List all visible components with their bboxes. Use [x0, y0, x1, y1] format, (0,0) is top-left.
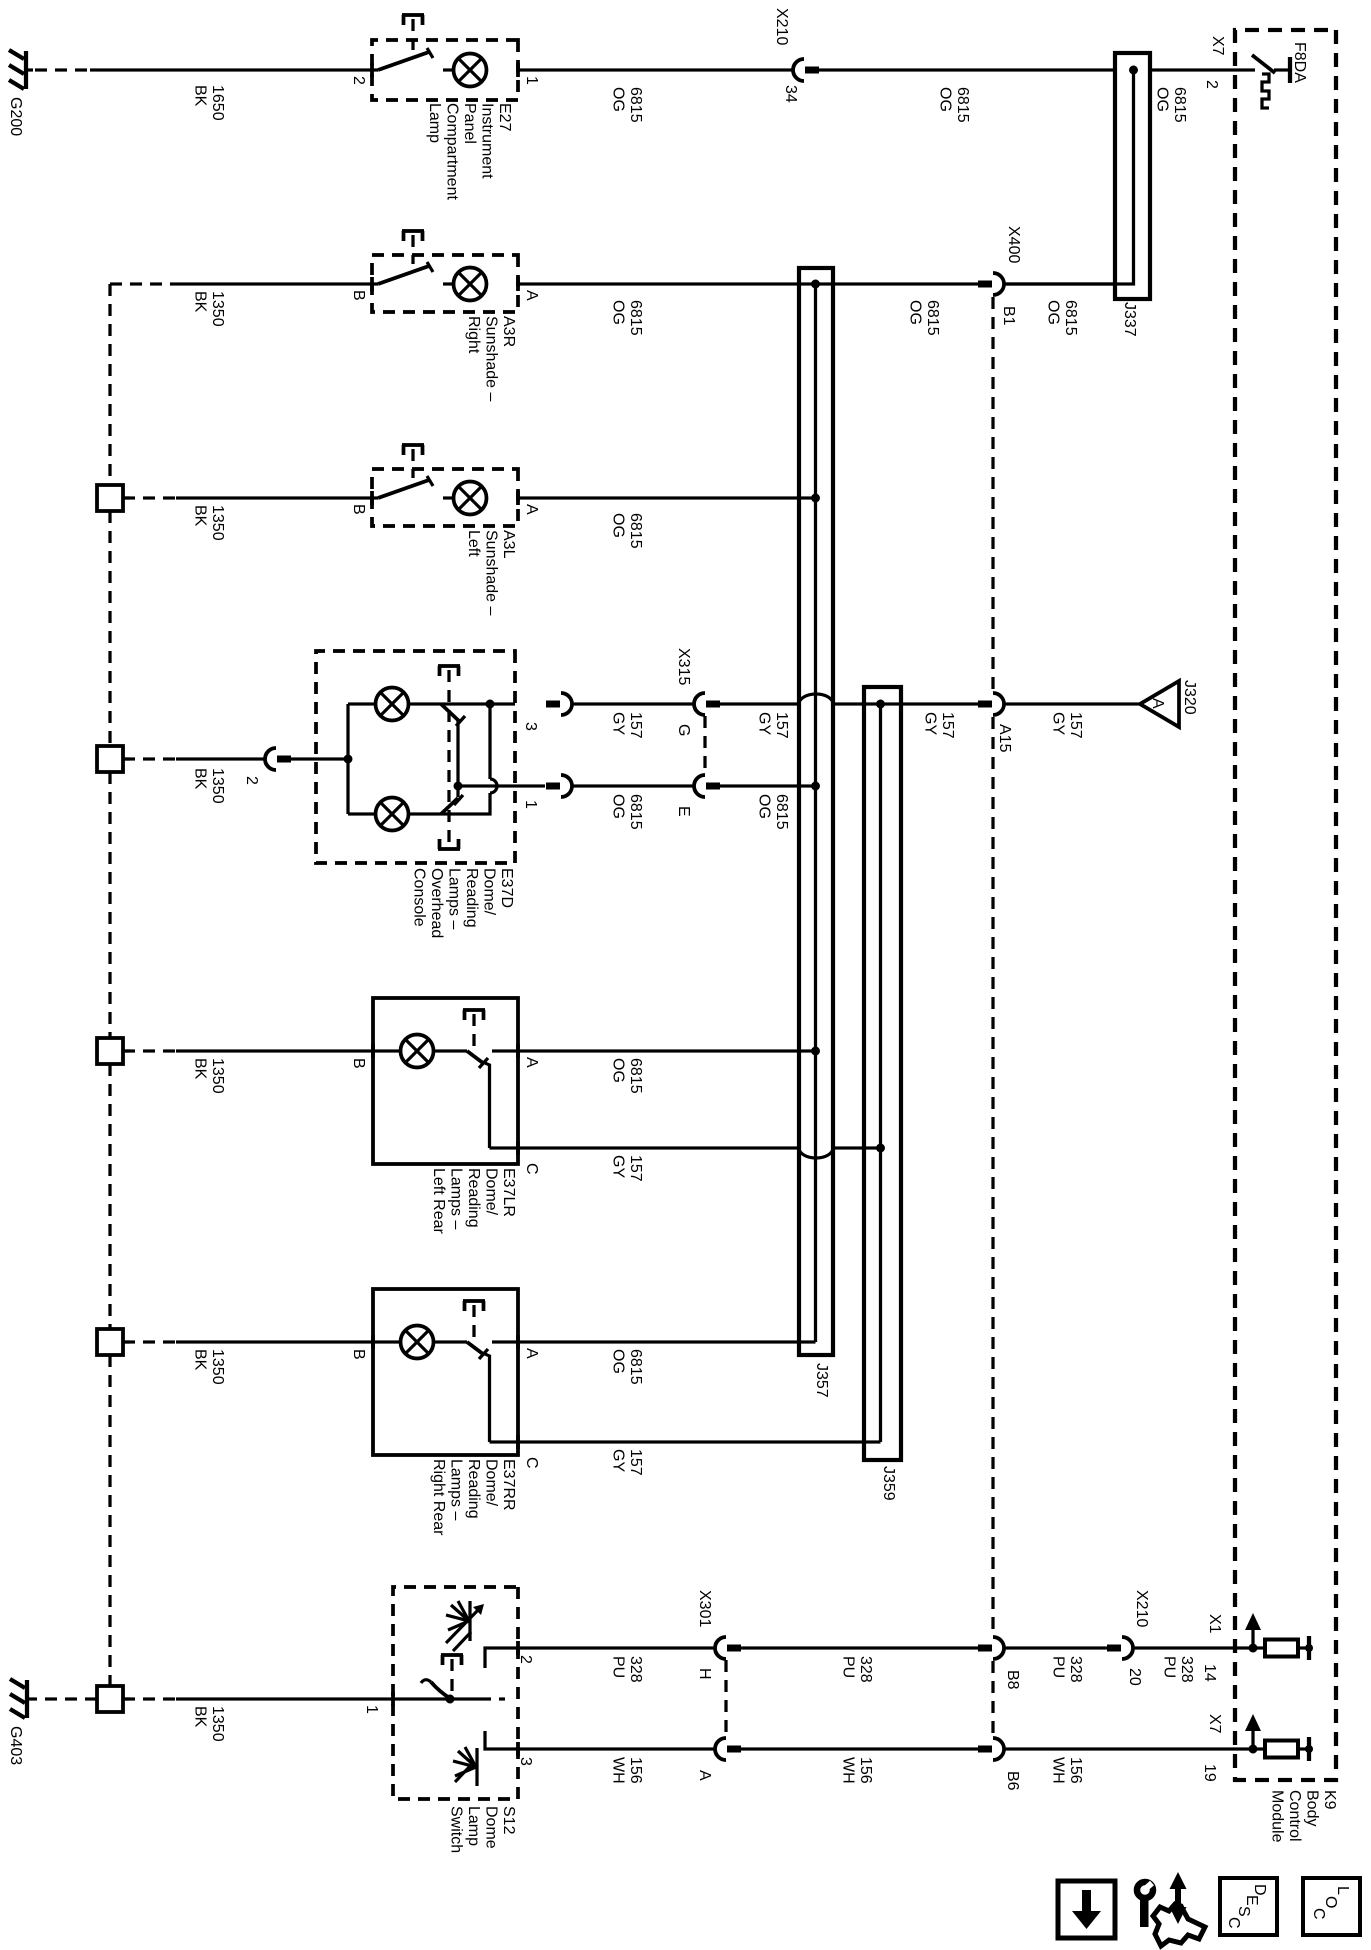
svg-text:PU: PU: [610, 1656, 627, 1678]
splice pack J359 box: [864, 687, 901, 1460]
svg-text:A: A: [523, 1057, 540, 1068]
connector X400 pin A15: [978, 693, 1004, 715]
label X315: [675, 648, 692, 685]
label X7 19: [1201, 1714, 1223, 1782]
svg-text:BK: BK: [192, 85, 209, 107]
label J359: [880, 1466, 897, 1501]
wire 1350 BK E37D solid to connector: [176, 757, 265, 760]
svg-text:157: 157: [627, 712, 644, 739]
svg-text:F8DA: F8DA: [1291, 42, 1308, 83]
svg-text:156: 156: [627, 1757, 644, 1784]
connector X210 pin 20: [1107, 1637, 1133, 1659]
svg-text:6815: 6815: [954, 87, 971, 123]
label A3L Sunshade Left: [465, 530, 517, 616]
label 6815 OG (X400 to J337): [1045, 300, 1080, 336]
splice J337 bus rail: [1004, 66, 1138, 285]
svg-text:156: 156: [1067, 1757, 1084, 1784]
pin tick E37RR pin A: [516, 1335, 520, 1349]
connector E37D pigtail pin 3: [546, 693, 572, 715]
label 34: [782, 85, 799, 103]
svg-text:OG: OG: [610, 87, 627, 112]
wire 328 PU X210 to BCM X1 14: [1133, 1646, 1235, 1649]
wire 156 WH B6 to BCM X7 19: [1004, 1747, 1235, 1750]
icon wrench and routing arrow: [1137, 1872, 1205, 1946]
svg-text:Overhead: Overhead: [428, 868, 445, 938]
svg-text:B8: B8: [1004, 1670, 1021, 1690]
svg-text:1650: 1650: [209, 85, 226, 121]
svg-text:Sunshade –: Sunshade –: [483, 316, 500, 402]
label B6: [1004, 1771, 1021, 1791]
label 1650 BK: [192, 85, 227, 121]
svg-text:Sunshade –: Sunshade –: [483, 530, 500, 616]
wire 6815 OG J337 to BCM fuse: [1150, 68, 1235, 71]
lamp assembly E37D box: [316, 651, 515, 863]
label 6815 OG (E37LR): [610, 1058, 645, 1094]
label 6815 OG (X210 to J337): [937, 87, 972, 123]
wire 328 PU B8 to X210 20: [1004, 1646, 1107, 1649]
svg-text:2: 2: [1203, 80, 1220, 89]
svg-text:Reading: Reading: [463, 868, 480, 928]
wire 157 GY X315 to J359 with hop over J357: [720, 694, 864, 704]
label 157 GY (E37D to X315): [610, 712, 645, 739]
svg-text:2: 2: [350, 76, 367, 85]
wire 157 GY E37RR C to J359 rail corner: [518, 1440, 881, 1443]
svg-text:34: 34: [782, 85, 799, 103]
svg-text:A: A: [1149, 698, 1166, 709]
svg-text:BK: BK: [192, 768, 209, 790]
connector X210 pin 34: [793, 59, 819, 81]
pin tick E27 pin 1: [516, 63, 520, 77]
label E37D pin 3: [522, 722, 539, 731]
switch S12 contact pin 3: [485, 1731, 518, 1749]
label A3R pin A: [523, 290, 540, 301]
svg-text:157: 157: [1067, 712, 1084, 739]
wire E37RR pin A inside box: [492, 1340, 518, 1343]
wire to ground G403 dashed: [37, 1697, 97, 1700]
icon box navigation arrow: [1058, 1881, 1115, 1938]
connector X315 pin E: [694, 775, 720, 797]
label 6815 OG (J337 to BCM): [1154, 87, 1189, 123]
svg-text:Reading: Reading: [465, 1168, 482, 1228]
label 1350 BK (S12): [192, 1706, 227, 1742]
splice J359 rail: [879, 704, 882, 1442]
svg-text:Dome/: Dome/: [481, 868, 498, 916]
switch E37LR output link to pin C: [485, 1063, 490, 1148]
svg-text:1: 1: [522, 800, 539, 809]
label S12 pin 3: [517, 1757, 534, 1766]
svg-text:E37RR: E37RR: [500, 1459, 517, 1511]
label 6815 OG (E27 to X210): [610, 87, 645, 123]
label 6815 OG (A3L to J357): [610, 513, 645, 549]
connector X301 pin H: [715, 1637, 741, 1659]
svg-text:Panel: Panel: [461, 103, 478, 144]
wire E37LR pin C inside box: [490, 1146, 519, 1149]
svg-text:6815: 6815: [627, 794, 644, 830]
svg-text:OG: OG: [610, 794, 627, 819]
svg-text:Left: Left: [465, 530, 482, 557]
svg-text:GY: GY: [1050, 712, 1067, 735]
svg-text:Module: Module: [1269, 1790, 1286, 1843]
svg-text:OG: OG: [1154, 87, 1171, 112]
splice J320 triangle: [1140, 681, 1179, 727]
label A3R pin B: [350, 290, 367, 301]
svg-text:156: 156: [857, 1757, 874, 1784]
pin tick A3L pin B: [370, 491, 374, 505]
wire 156 WH S12 to X301 A: [518, 1747, 715, 1750]
label E37LR Dome Reading Lamps Left Rear: [430, 1168, 517, 1234]
svg-text:WH: WH: [1050, 1757, 1067, 1784]
svg-text:J320: J320: [1181, 680, 1198, 715]
svg-text:OG: OG: [610, 513, 627, 538]
svg-text:6815: 6815: [627, 300, 644, 336]
actuator bracket E37LR: [463, 1010, 485, 1048]
wire 6815 OG E27 to X210: [518, 68, 793, 71]
junction square E37RR bus tap: [97, 1329, 130, 1355]
svg-text:WH: WH: [610, 1757, 627, 1784]
junction square E37D bus tap: [97, 746, 130, 772]
svg-text:L: L: [1334, 1886, 1351, 1895]
svg-text:X210: X210: [773, 8, 790, 45]
pin tick A3L pin A: [516, 491, 520, 505]
wire 328 PU X301 to X400 B8: [741, 1646, 978, 1649]
wire E37RR pin C inside box: [490, 1440, 519, 1443]
junction square E37LR bus tap: [97, 1038, 130, 1064]
switch S12 Dome Lamp Switch box: [393, 1587, 518, 1799]
bridge line bulb2 to pin3 wire with hop: [409, 700, 497, 815]
svg-text:X400: X400: [1005, 226, 1022, 263]
label J320: [1181, 680, 1198, 715]
label 328 PU (S12 to X301): [610, 1656, 645, 1683]
label 157 GY (J359 to A15): [922, 712, 957, 739]
bulb E37D first: [348, 688, 409, 721]
label 156 WH (X301 to B6): [840, 1757, 875, 1784]
switch E37RR output link to pin C: [485, 1354, 490, 1442]
label 156 WH (B6 to BCM): [1050, 1757, 1085, 1784]
ground G403: [10, 1679, 37, 1718]
svg-text:328: 328: [857, 1656, 874, 1683]
label E27 Instrument Panel Compartment Lamp: [426, 103, 513, 200]
svg-text:Switch: Switch: [448, 1806, 465, 1853]
svg-text:B: B: [350, 1349, 367, 1360]
svg-text:S: S: [1235, 1906, 1252, 1917]
svg-text:X301: X301: [696, 1590, 713, 1627]
connector X315 pin G: [694, 693, 720, 715]
pin tick S12 pin 3: [516, 1742, 520, 1756]
svg-text:6815: 6815: [627, 513, 644, 549]
svg-text:J357: J357: [813, 1363, 830, 1398]
label 328 PU (B8 to X210): [1050, 1656, 1085, 1683]
svg-text:1350: 1350: [209, 1058, 226, 1094]
lamp icon S12 position 2: [446, 1601, 484, 1651]
label B8: [1004, 1670, 1021, 1690]
label J337: [1121, 302, 1138, 337]
svg-text:OG: OG: [907, 300, 924, 325]
pin tick E37RR pin B: [371, 1335, 375, 1349]
svg-text:X315: X315: [675, 648, 692, 685]
wire E37LR pin A inside box: [492, 1049, 518, 1052]
label X301: [696, 1590, 713, 1627]
svg-text:1: 1: [363, 1705, 380, 1714]
svg-text:Lamps –: Lamps –: [448, 1168, 465, 1229]
svg-text:2: 2: [517, 1655, 534, 1664]
svg-text:6815: 6815: [773, 794, 790, 830]
lamp assembly E37LR box: [373, 998, 518, 1164]
actuator bracket S12: [441, 1655, 463, 1694]
wire 6815 OG A3L to J357: [518, 496, 799, 499]
wire 1350 BK A3R solid: [176, 282, 372, 285]
svg-text:X210: X210: [1133, 1590, 1150, 1627]
svg-text:Lamp: Lamp: [465, 1806, 482, 1846]
pin tick S12 pin 1: [391, 1692, 395, 1706]
label X400: [1005, 226, 1022, 263]
label 20: [1126, 1668, 1143, 1686]
svg-text:C: C: [523, 1163, 540, 1175]
switch in E27: [372, 48, 433, 70]
svg-text:Dome/: Dome/: [483, 1459, 500, 1507]
svg-text:GY: GY: [922, 712, 939, 735]
switch E37D blade 1: [441, 704, 465, 726]
label A3L pin B: [350, 504, 367, 515]
wire from bulb 1 to pin 3 exit: [409, 702, 515, 705]
label E37LR pin A: [523, 1057, 540, 1068]
svg-text:G: G: [675, 724, 692, 736]
wire 1650 BK dashed segment at ground: [35, 68, 90, 71]
pin tick E27 pin 2: [370, 63, 374, 77]
svg-text:157: 157: [627, 1449, 644, 1476]
label S12 Dome Lamp Switch: [448, 1806, 518, 1853]
wire 6815 OG E37LR A to J357 rail: [518, 1047, 820, 1056]
svg-text:3: 3: [522, 722, 539, 731]
label 156 WH (S12 to X301): [610, 1757, 645, 1784]
label 6815 OG (J357 to X400): [907, 300, 942, 336]
svg-text:1350: 1350: [209, 291, 226, 327]
wire 1350 BK E37D dashed: [123, 757, 176, 760]
label G200: [7, 97, 24, 136]
svg-text:B1: B1: [1000, 306, 1017, 326]
wire S12 common inside box: [393, 1695, 505, 1704]
svg-text:H: H: [696, 1668, 713, 1680]
label 6815 OG (E37D to X315): [610, 794, 645, 830]
svg-text:PU: PU: [840, 1656, 857, 1678]
bulb E37LR: [373, 1035, 467, 1068]
svg-text:1: 1: [523, 76, 540, 85]
svg-text:14: 14: [1201, 1664, 1218, 1682]
svg-text:C: C: [523, 1457, 540, 1469]
wire 157 GY E37LR C to J359 with hop over J357: [518, 1144, 885, 1159]
svg-text:PU: PU: [1050, 1656, 1067, 1678]
label E37LR pin C: [523, 1163, 540, 1175]
lamp A3R Sunshade Right box: [372, 255, 518, 312]
svg-text:157: 157: [773, 712, 790, 739]
pin tick A3R pin B: [370, 277, 374, 291]
svg-text:OG: OG: [937, 87, 954, 112]
connector E37D pigtail pin 1: [546, 775, 572, 797]
label E37LR pin B: [350, 1058, 367, 1069]
svg-text:Compartment: Compartment: [444, 103, 461, 200]
svg-text:OG: OG: [610, 1349, 627, 1374]
svg-text:Dome: Dome: [483, 1806, 500, 1849]
label E27 pin 1: [523, 76, 540, 85]
actuator bracket A3R: [402, 231, 424, 264]
wire 1350 BK S12 dashed: [123, 1697, 176, 1700]
label E37RR Dome Reading Lamps Right Rear: [430, 1459, 517, 1536]
wire E37D pin 1 from switch: [458, 784, 545, 787]
svg-text:6815: 6815: [627, 1349, 644, 1385]
bulb E27: [443, 54, 487, 87]
label E37D Dome Reading Lamps Overhead Console: [411, 868, 516, 938]
label A3L pin A: [523, 504, 540, 515]
svg-text:Dome/: Dome/: [483, 1168, 500, 1216]
connector X315 face line: [703, 716, 706, 774]
svg-text:OG: OG: [756, 794, 773, 819]
wire 6815 OG pigtail to X315 E: [572, 784, 694, 787]
svg-text:1350: 1350: [209, 768, 226, 804]
lamp assembly E37RR box: [373, 1289, 518, 1455]
connector X301 face line: [724, 1660, 727, 1737]
svg-text:19: 19: [1201, 1764, 1218, 1782]
svg-text:C: C: [1225, 1917, 1242, 1929]
svg-text:C: C: [1310, 1908, 1327, 1920]
icon box DESC: [1220, 1878, 1277, 1935]
svg-text:GY: GY: [610, 1155, 627, 1178]
svg-text:E27: E27: [496, 103, 513, 132]
svg-text:6815: 6815: [924, 300, 941, 336]
junction square S12 G403 tap: [97, 1686, 130, 1712]
wire 157 GY A15 to J320: [1004, 702, 1140, 705]
label K9 Body Control Module: [1269, 1790, 1339, 1843]
svg-text:B6: B6: [1004, 1771, 1021, 1791]
wire 328 PU S12 to X301 H: [518, 1646, 715, 1649]
junction dot A3L at J357 rail: [799, 494, 820, 503]
svg-text:J359: J359: [880, 1466, 897, 1501]
label 157 GY (X315 to J357): [756, 712, 791, 739]
svg-text:6815: 6815: [627, 1058, 644, 1094]
junction square A3L bus tap: [97, 485, 130, 511]
label X210 (S12 circuit): [1133, 1590, 1150, 1627]
module K9 Body Control Module box: [1235, 30, 1336, 1780]
pin tick E37RR pin C: [516, 1435, 520, 1449]
ground bus 1350 BK dashed rail: [108, 284, 111, 1686]
wire 1350 BK E37RR dashed: [123, 1340, 176, 1343]
switch in A3R: [372, 262, 433, 284]
label 1350 BK (A3R): [192, 291, 227, 327]
label J320 pin A: [1149, 698, 1166, 709]
svg-text:X7: X7: [1206, 1714, 1223, 1734]
label E37RR pin A: [523, 1348, 540, 1359]
svg-text:2: 2: [243, 776, 260, 785]
svg-text:Reading: Reading: [465, 1459, 482, 1519]
splice pack J357 box: [799, 268, 833, 1355]
svg-text:A: A: [696, 1770, 713, 1781]
wire 1650 BK E27 to ground: [90, 68, 372, 71]
svg-text:GY: GY: [756, 712, 773, 735]
svg-text:G200: G200: [7, 97, 24, 136]
pin tick E37LR pin C: [516, 1141, 520, 1155]
svg-text:157: 157: [627, 1155, 644, 1182]
svg-text:Lamps –: Lamps –: [448, 1459, 465, 1520]
svg-text:X7: X7: [1209, 36, 1226, 56]
pin tick S12 pin 2: [516, 1641, 520, 1655]
label E37D pin 1: [522, 800, 539, 809]
label E37D pin 2: [243, 776, 260, 785]
wire 6815 OG X210 to J337: [819, 68, 1115, 71]
wire 1350 BK A3L solid: [176, 496, 372, 499]
actuator bracket pair E37D: [438, 666, 460, 849]
junction dot A3R at J357 rail: [811, 280, 820, 289]
svg-text:E37D: E37D: [498, 868, 515, 908]
svg-text:G403: G403: [7, 1726, 24, 1765]
wire 6815 OG X315 E to J357 rail: [720, 782, 820, 791]
svg-text:K9: K9: [1321, 1790, 1338, 1810]
bulb E37D second: [348, 798, 409, 831]
svg-text:1350: 1350: [209, 1349, 226, 1385]
wire 1350 BK A3R to ground bus (dashed corner): [110, 282, 176, 285]
svg-text:GY: GY: [610, 712, 627, 735]
connector X400 pin B6: [978, 1738, 1004, 1760]
svg-text:BK: BK: [192, 1349, 209, 1371]
lamp A3L Sunshade Left box: [372, 469, 518, 526]
label 157 GY (A15 to J320): [1050, 712, 1085, 739]
wire E37D pin 2 into box: [291, 757, 348, 760]
label 1350 BK (E37D): [192, 768, 227, 804]
label 328 PU (X301 to B8): [840, 1656, 875, 1683]
label X301 pin H: [696, 1668, 713, 1680]
svg-text:O: O: [1322, 1896, 1339, 1908]
bulb A3R: [443, 268, 487, 301]
wire 1350 BK A3L dashed: [123, 496, 176, 499]
wire 1350 BK E37LR dashed: [123, 1049, 176, 1052]
label S12 pin 2: [517, 1655, 534, 1664]
svg-text:BK: BK: [192, 505, 209, 527]
svg-text:A: A: [523, 290, 540, 301]
svg-text:Body: Body: [1304, 1790, 1321, 1826]
label 157 GY (E37LR): [610, 1155, 645, 1182]
svg-text:Lamps –: Lamps –: [446, 868, 463, 929]
connector X301 pin A: [715, 1738, 741, 1760]
actuator bracket E27: [402, 15, 424, 50]
lamp icon S12 position 3: [453, 1747, 477, 1786]
label X7 2 (E27 circuit BCM pin): [1203, 36, 1226, 89]
svg-text:GY: GY: [610, 1449, 627, 1472]
svg-text:S12: S12: [500, 1806, 517, 1835]
svg-text:Lamp: Lamp: [426, 103, 443, 143]
connector X400 pin B8: [978, 1637, 1004, 1659]
bulb E37RR: [373, 1326, 467, 1359]
svg-text:A3L: A3L: [500, 530, 517, 559]
svg-text:157: 157: [939, 712, 956, 739]
svg-text:A: A: [523, 504, 540, 515]
fuse F8DA: [1235, 55, 1290, 108]
pin tick A3R pin A: [516, 277, 520, 291]
svg-text:D: D: [1251, 1884, 1268, 1896]
label 1350 BK (A3L): [192, 505, 227, 541]
svg-text:Left Rear: Left Rear: [430, 1168, 447, 1234]
label 1350 BK (E37RR): [192, 1349, 227, 1385]
label E27 pin 2: [350, 76, 367, 85]
svg-text:Right Rear: Right Rear: [430, 1459, 447, 1536]
ground G200: [9, 50, 33, 89]
bulb A3L: [443, 482, 487, 515]
pin tick E37LR pin B: [371, 1044, 375, 1058]
label 328 PU (X210 to BCM): [1161, 1656, 1196, 1683]
ground feed line inside E37D: [344, 704, 353, 814]
svg-text:Console: Console: [411, 868, 428, 927]
switch S12 contact pin 2: [485, 1648, 518, 1668]
wire 157 GY J359 to X400 A15: [881, 702, 978, 705]
label A3R Sunshade Right: [465, 316, 517, 402]
BCM pin X7 19 input: arrow and resistor: [1235, 1714, 1313, 1761]
actuator bracket E37RR: [463, 1301, 485, 1339]
